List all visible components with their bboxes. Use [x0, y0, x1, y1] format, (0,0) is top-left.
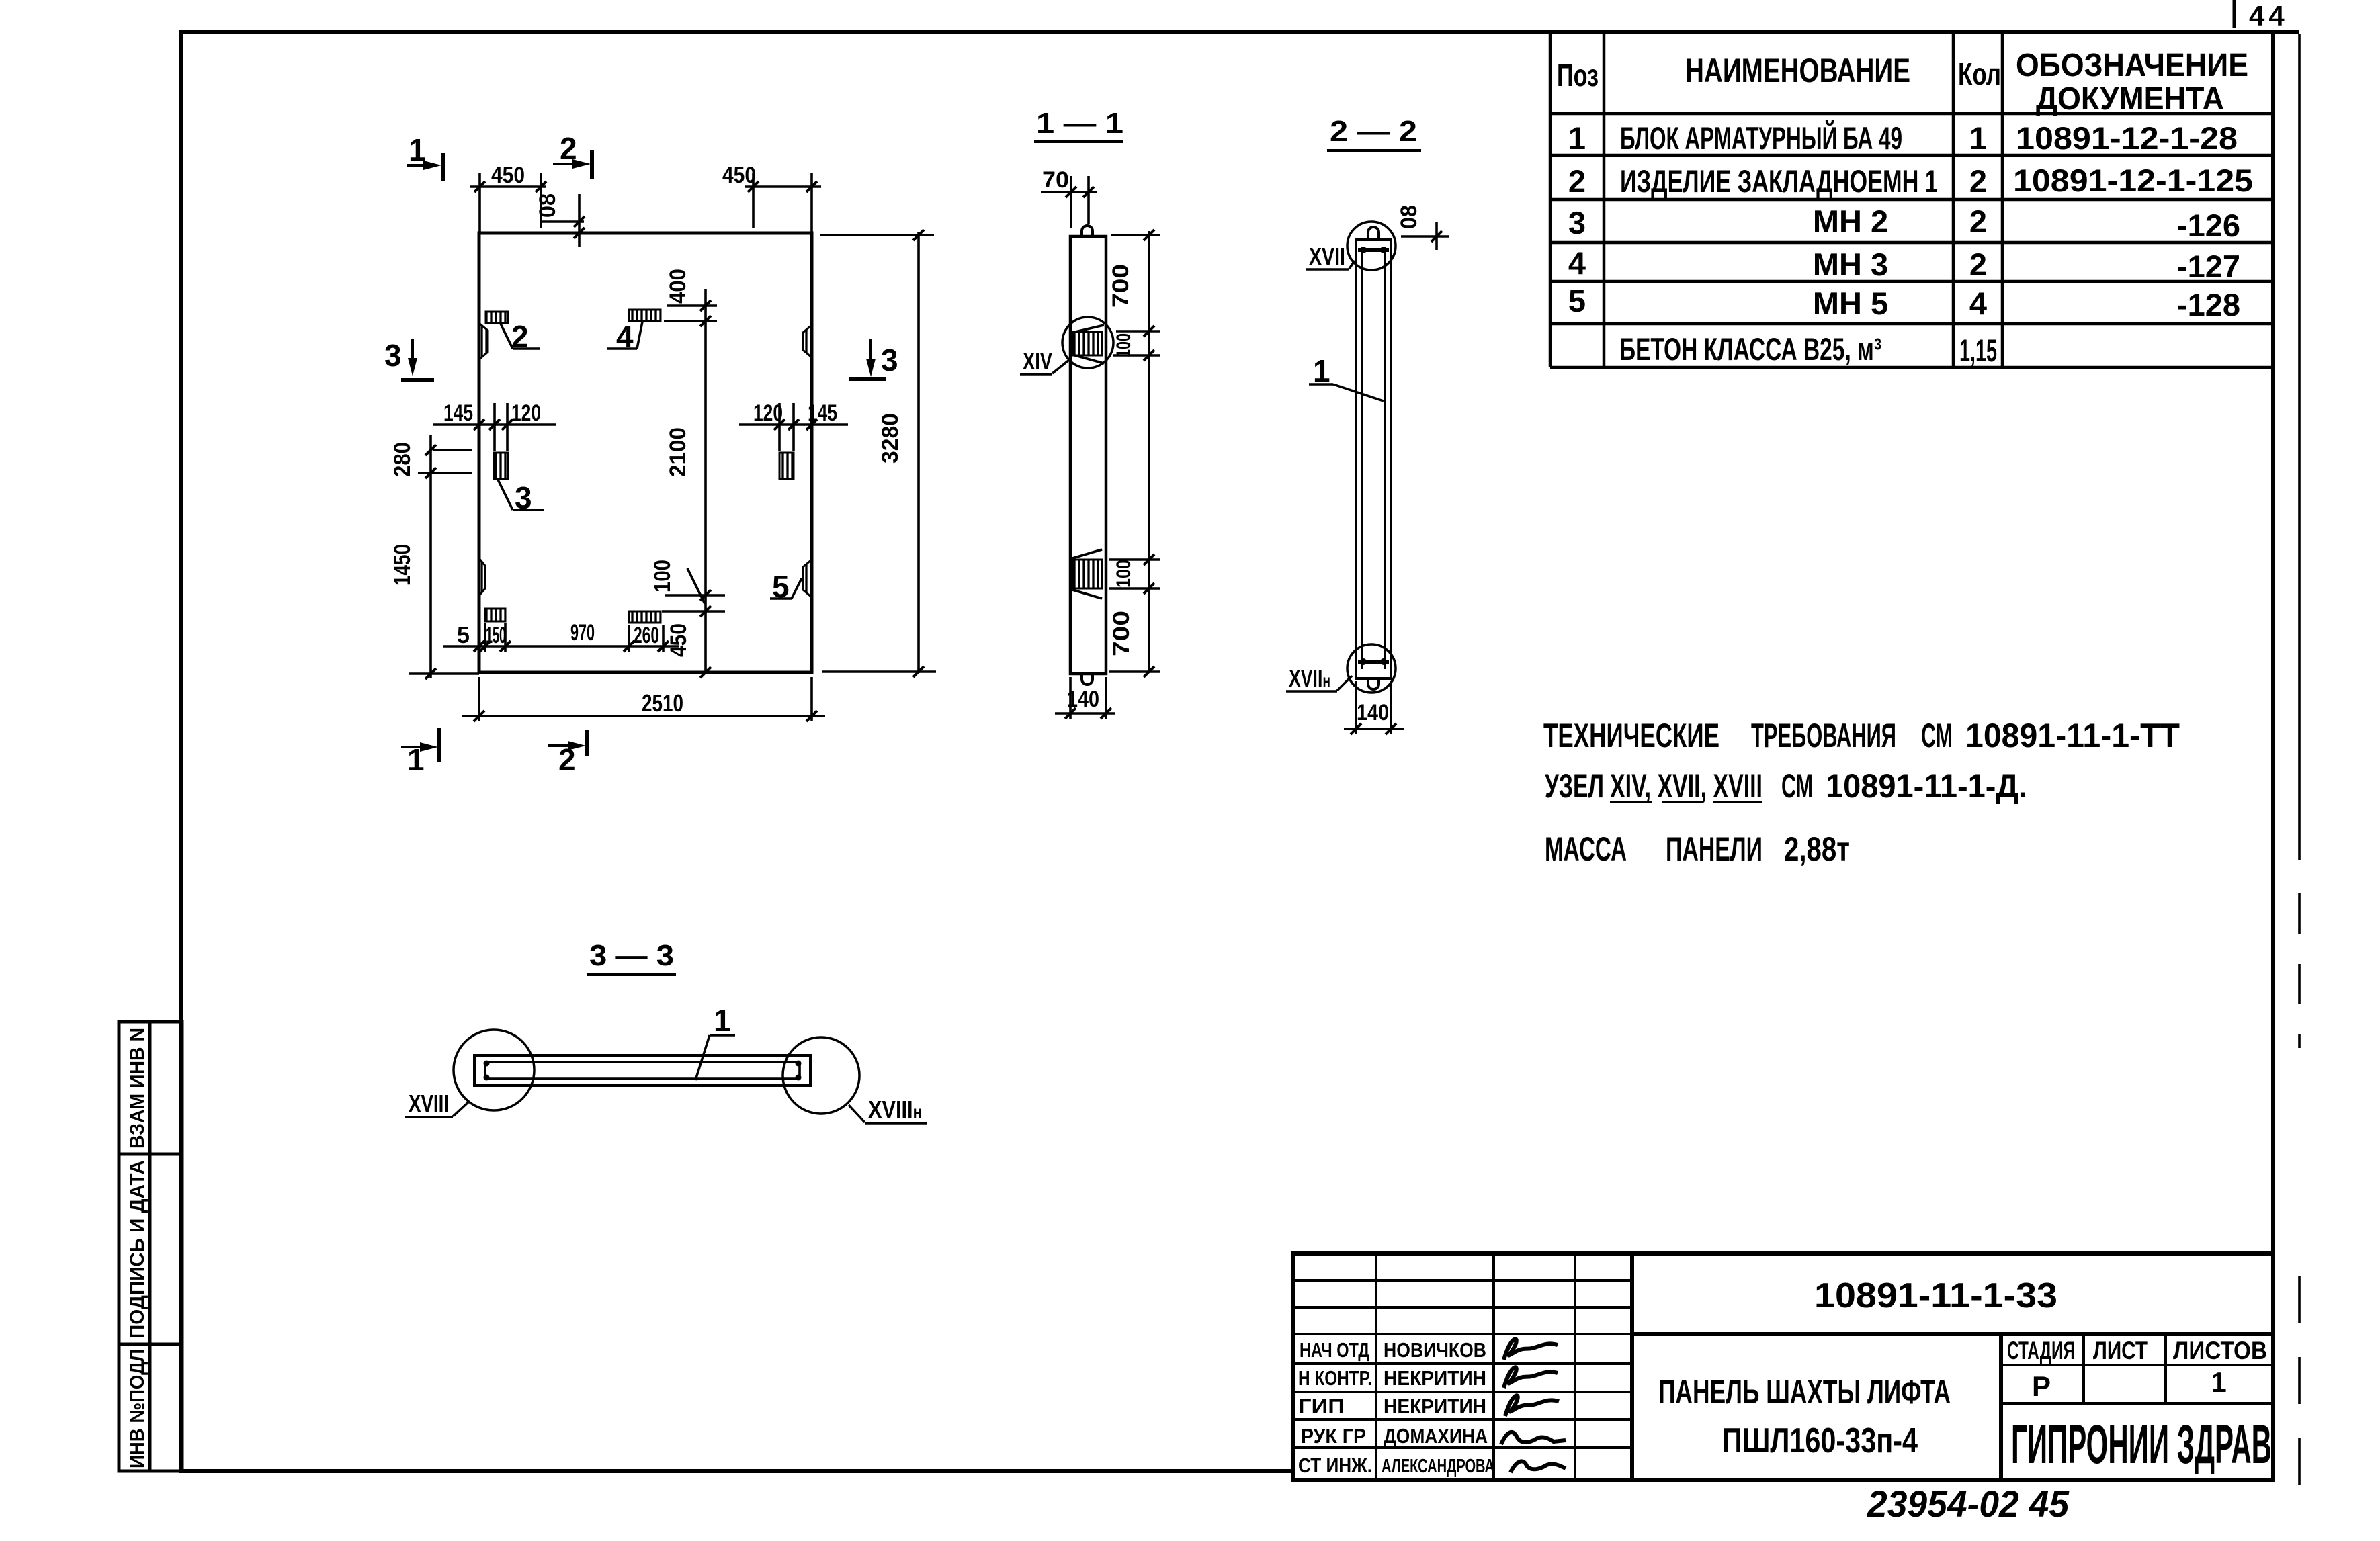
svg-text:450: 450	[722, 163, 756, 188]
svg-text:1: 1	[1313, 353, 1330, 388]
svg-text:ЛИСТ: ЛИСТ	[2093, 1337, 2148, 1364]
svg-text:4: 4	[616, 319, 634, 354]
svg-text:НОВИЧКОВ: НОВИЧКОВ	[1384, 1338, 1486, 1362]
svg-text:ИЗДЕЛИЕ ЗАКЛАДНОЕМН 1: ИЗДЕЛИЕ ЗАКЛАДНОЕМН 1	[1620, 163, 1938, 199]
svg-text:1: 1	[1969, 120, 1987, 156]
dim 100 lower middle	[650, 560, 725, 617]
detail circle XVIII	[454, 1030, 534, 1110]
svg-text:ИНВ №ПОДЛ: ИНВ №ПОДЛ	[126, 1349, 148, 1468]
svg-text:ТЕХНИЧЕСКИЕ: ТЕХНИЧЕСКИЕ	[1543, 717, 1719, 754]
svg-text:НАЧ ОТД: НАЧ ОТД	[1300, 1338, 1369, 1362]
svg-text:2: 2	[1969, 163, 1987, 199]
outer right thin line	[2298, 34, 2301, 860]
section 2-2 bar	[1356, 240, 1391, 678]
svg-text:10891-11-1-Д.: 10891-11-1-Д.	[1826, 767, 2027, 805]
section mark 1 top	[407, 132, 443, 181]
svg-text:ПОДПИСЬ И ДАТА: ПОДПИСЬ И ДАТА	[126, 1160, 148, 1339]
svg-text:ДОМАХИНА: ДОМАХИНА	[1384, 1424, 1488, 1448]
svg-text:08: 08	[535, 193, 560, 218]
svg-text:АЛЕКСАНДРОВА: АЛЕКСАНДРОВА	[1382, 1456, 1494, 1477]
svg-text:XVIII: XVIII	[409, 1090, 449, 1117]
dim 2100 middle	[665, 427, 691, 477]
svg-text:260: 260	[634, 623, 659, 648]
svg-text:280: 280	[390, 442, 415, 477]
embedded plate bottom-middle	[629, 611, 661, 623]
leader label 4	[607, 319, 642, 354]
svg-text:БЛОК АРМАТУРНЫЙ БА 49: БЛОК АРМАТУРНЫЙ БА 49	[1620, 120, 1902, 156]
svg-text:МН 3: МН 3	[1813, 247, 1888, 282]
svg-text:ДОКУМЕНТА: ДОКУМЕНТА	[2036, 81, 2224, 117]
svg-text:-127: -127	[2177, 249, 2240, 284]
svg-text:Н КОНТР.: Н КОНТР.	[1298, 1366, 1372, 1390]
svg-text:Поз: Поз	[1557, 58, 1599, 93]
svg-text:СМ: СМ	[1921, 717, 1953, 754]
bottom anchor	[1358, 658, 1389, 689]
section mark 2 top	[553, 131, 592, 179]
leader label 5	[770, 569, 802, 604]
svg-text:2: 2	[511, 319, 529, 354]
svg-text:Кол: Кол	[1958, 56, 2001, 91]
section mark 2 bottom	[548, 730, 587, 777]
svg-text:СТ ИНЖ.: СТ ИНЖ.	[1298, 1454, 1372, 1477]
dim 450 lower middle	[666, 623, 711, 678]
svg-text:НЕКРИТИН: НЕКРИТИН	[1384, 1366, 1486, 1390]
svg-text:XIV: XIV	[1023, 347, 1052, 375]
dim 80 section 2-2	[1396, 205, 1449, 250]
svg-text:44: 44	[2249, 0, 2289, 32]
svg-text:10891-12-1-125: 10891-12-1-125	[2013, 163, 2253, 198]
svg-text:3: 3	[384, 338, 402, 373]
dim 70	[1041, 167, 1097, 228]
svg-text:ТРЕБОВАНИЯ: ТРЕБОВАНИЯ	[1751, 717, 1896, 754]
svg-text:10891-11-1-ТТ: 10891-11-1-ТТ	[1965, 717, 2180, 754]
svg-text:400: 400	[665, 269, 691, 304]
svg-text:-128: -128	[2177, 287, 2240, 322]
svg-text:100: 100	[650, 560, 675, 592]
svg-text:2: 2	[1568, 163, 1586, 199]
svg-text:XVII: XVII	[1309, 243, 1345, 270]
dim 450 top-right	[722, 163, 821, 233]
section 3-3 title	[587, 939, 676, 975]
svg-text:ЛИСТОВ: ЛИСТОВ	[2173, 1337, 2267, 1364]
svg-text:3: 3	[881, 343, 898, 378]
dim 140 bottom of 1-1	[1055, 677, 1115, 719]
svg-text:РУК ГР: РУК ГР	[1301, 1424, 1366, 1448]
dim 145/120 left	[433, 400, 556, 451]
svg-text:НЕКРИТИН: НЕКРИТИН	[1384, 1395, 1486, 1418]
svg-text:Р: Р	[2032, 1370, 2051, 1402]
svg-text:ПАНЕЛИ: ПАНЕЛИ	[1666, 830, 1762, 868]
svg-text:МАССА: МАССА	[1545, 830, 1627, 868]
svg-text:23954-02 45: 23954-02 45	[1867, 1483, 2070, 1525]
svg-text:3: 3	[515, 480, 532, 515]
section mark 1 bottom	[401, 728, 439, 777]
section 3-3 bar	[474, 1055, 810, 1086]
svg-text:ВЗАМ ИНВ N: ВЗАМ ИНВ N	[126, 1028, 148, 1149]
svg-text:145: 145	[443, 400, 473, 426]
label XIV	[1020, 347, 1069, 375]
section mark 3 left	[384, 338, 434, 380]
svg-text:МН 2: МН 2	[1813, 204, 1888, 239]
edge notch right lower (pos 5)	[803, 560, 812, 597]
dim 2510 bottom	[462, 677, 825, 721]
dim 400 middle	[664, 269, 717, 674]
svg-text:1: 1	[1568, 120, 1586, 156]
edge notch left upper	[479, 323, 488, 359]
svg-text:2: 2	[1969, 247, 1987, 282]
embedded plate 3 (left)	[494, 453, 508, 479]
embedded plate 2 (top-left)	[486, 312, 508, 323]
embedded plate 3 (right)	[779, 453, 794, 479]
svg-text:70: 70	[1042, 167, 1069, 193]
svg-text:1450: 1450	[390, 544, 415, 586]
svg-text:ГИП: ГИП	[1298, 1395, 1345, 1418]
section 1-1 bar	[1070, 236, 1106, 674]
svg-text:100: 100	[1113, 333, 1135, 357]
svg-text:БЕТОН КЛАССА В25, м³: БЕТОН КЛАССА В25, м³	[1619, 331, 1881, 367]
svg-text:450: 450	[666, 623, 691, 657]
dim 1450 left	[390, 482, 479, 679]
svg-text:140: 140	[1357, 700, 1389, 725]
svg-text:100: 100	[1113, 560, 1135, 588]
top lug	[1082, 226, 1093, 237]
bottom lug	[1082, 674, 1093, 685]
dim 120/145 right	[739, 400, 848, 451]
svg-text:2: 2	[1969, 204, 1987, 239]
section mark 3 right	[849, 339, 898, 379]
lower plate in section	[1072, 549, 1102, 599]
detail circle XVIIIн	[783, 1037, 859, 1114]
svg-text:-126: -126	[2177, 208, 2240, 243]
edge notch left lower	[479, 558, 485, 596]
leader label 2	[501, 319, 540, 354]
svg-text:450: 450	[491, 163, 525, 188]
left stamp column (sidebar)	[119, 1022, 182, 1471]
label XVIIIн	[849, 1096, 927, 1123]
title block signature grid	[1293, 1253, 1632, 1480]
upper plate in section	[1072, 325, 1104, 363]
dim 5/150/970/260 bottom	[443, 620, 679, 652]
embedded plate 4 (top-middle)	[629, 310, 661, 321]
svg-text:5: 5	[772, 569, 790, 604]
label 1 section 3-3	[695, 1003, 735, 1080]
label XVIII	[405, 1090, 470, 1117]
svg-text:1: 1	[714, 1003, 731, 1038]
page number tick	[2233, 0, 2236, 28]
svg-text:3: 3	[1568, 205, 1586, 240]
svg-text:2,88т: 2,88т	[1784, 830, 1850, 868]
svg-text:3280: 3280	[878, 413, 903, 464]
label 1 section 2-2	[1309, 353, 1384, 401]
specification table grid	[1550, 30, 2273, 367]
svg-text:4: 4	[1568, 245, 1586, 281]
svg-text:700: 700	[1109, 611, 1134, 656]
signatures (scribbles)	[1501, 1339, 1566, 1472]
stadia grid	[2001, 1334, 2273, 1403]
leader label 3	[498, 480, 544, 515]
svg-text:УЗЕЛ: УЗЕЛ	[1545, 767, 1604, 805]
dim 140 bottom of 2-2	[1344, 681, 1404, 734]
svg-text:08: 08	[1396, 205, 1422, 229]
svg-text:НАИМЕНОВАНИЕ: НАИМЕНОВАНИЕ	[1685, 52, 1910, 89]
svg-text:10891-12-1-28: 10891-12-1-28	[2016, 120, 2238, 156]
panel outline	[479, 233, 812, 672]
dim 280 left	[390, 435, 472, 482]
svg-text:3 — 3: 3 — 3	[589, 939, 674, 972]
dim 3280 right	[820, 230, 936, 677]
svg-text:1: 1	[2211, 1366, 2226, 1398]
edge notch right upper	[803, 325, 812, 357]
svg-text:5: 5	[457, 623, 470, 648]
bottom detail circle XVIIн	[1347, 644, 1396, 693]
svg-text:1: 1	[409, 132, 426, 167]
svg-text:XIV, XVII, XVIII: XIV, XVII, XVIII	[1610, 767, 1762, 805]
svg-text:5: 5	[1568, 283, 1586, 318]
svg-text:МН 5: МН 5	[1813, 285, 1888, 321]
svg-text:2 — 2: 2 — 2	[1330, 115, 1417, 148]
section 1-1 title	[1034, 107, 1123, 142]
svg-text:970: 970	[570, 620, 595, 646]
svg-text:120: 120	[511, 400, 541, 426]
label XVII	[1306, 243, 1355, 270]
svg-text:2100: 2100	[665, 427, 691, 477]
top anchor	[1358, 227, 1389, 253]
svg-text:1,15: 1,15	[1959, 333, 1997, 368]
svg-text:145: 145	[808, 400, 837, 426]
svg-text:ОБОЗНАЧЕНИЕ: ОБОЗНАЧЕНИЕ	[2016, 48, 2248, 83]
svg-text:ПШЛ160-33п-4: ПШЛ160-33п-4	[1722, 1421, 1918, 1460]
detail circle XIV	[1062, 317, 1113, 368]
svg-text:ПАНЕЛЬ ШАХТЫ ЛИФТА: ПАНЕЛЬ ШАХТЫ ЛИФТА	[1658, 1373, 1951, 1411]
dim 80 top	[535, 193, 585, 247]
dim chain 700/100/100/700 right of section 1-1	[1108, 230, 1160, 677]
title block outline	[1293, 1253, 2273, 1480]
svg-text:10891-11-1-33: 10891-11-1-33	[1814, 1276, 2057, 1315]
section 2-2 title	[1327, 115, 1421, 150]
svg-text:4: 4	[1969, 285, 1987, 321]
svg-text:140: 140	[1067, 687, 1099, 712]
dim 450 top-left	[470, 163, 546, 233]
svg-text:1 — 1: 1 — 1	[1036, 107, 1123, 140]
label XVIIн	[1286, 664, 1352, 692]
svg-text:2510: 2510	[642, 689, 683, 717]
svg-text:700: 700	[1108, 264, 1134, 308]
top detail circle XVII	[1347, 222, 1396, 270]
svg-text:СТАДИЯ: СТАДИЯ	[2007, 1337, 2075, 1364]
svg-text:ГИПРОНИИ ЗДРАВ: ГИПРОНИИ ЗДРАВ	[2011, 1414, 2272, 1475]
svg-text:СМ: СМ	[1781, 767, 1813, 805]
embedded plate bottom-left	[485, 609, 505, 621]
